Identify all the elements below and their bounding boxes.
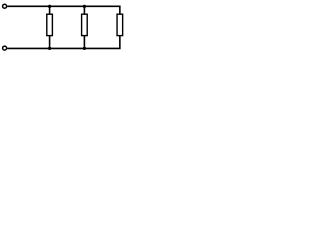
junction dot: R2 top (83, 5, 86, 8)
junction dot: R1 bottom (48, 47, 51, 50)
junction dot: R2 bottom (83, 47, 86, 50)
terminal: top-left open circle (3, 4, 7, 8)
wire: vertical branch of R2 (83, 6, 85, 48)
wire: vertical branch of R1 (49, 6, 51, 48)
wire: top rail, right side drop and bottom rail (one loop) (7, 6, 120, 48)
junction dot: R1 top (48, 5, 51, 8)
resistor R3 (117, 14, 123, 35)
resistor R2 (82, 14, 88, 35)
terminal: bottom-left open circle (3, 46, 7, 50)
resistor R1 (47, 14, 53, 35)
